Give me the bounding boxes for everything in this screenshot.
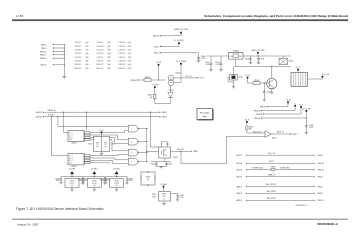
svg-text:R8541: R8541 bbox=[74, 64, 81, 66]
svg-text:10UF: 10UF bbox=[56, 180, 60, 182]
svg-text:C8528: C8528 bbox=[129, 178, 134, 180]
svg-text:PB8-6: PB8-6 bbox=[318, 155, 323, 157]
svg-text:C8544: C8544 bbox=[74, 53, 81, 55]
svg-text:U8515: U8515 bbox=[239, 76, 244, 78]
capacitor C8526 bbox=[104, 177, 111, 183]
svg-text:47K: 47K bbox=[249, 128, 252, 130]
power 5V input regulator 2 bbox=[91, 168, 98, 176]
wire SW_B+ bbox=[36, 115, 167, 119]
ground C8530 bbox=[176, 199, 179, 201]
transistor Q8501 bbox=[159, 147, 179, 159]
svg-text:10UF: 10UF bbox=[101, 180, 105, 182]
svg-text:AN8-3: AN8-3 bbox=[237, 192, 242, 195]
svg-text:5V_A: 5V_A bbox=[286, 98, 291, 101]
wire FL8500 to rail B bbox=[235, 59, 236, 67]
svg-text:1-156: 1-156 bbox=[16, 14, 24, 18]
svg-text:10UF: 10UF bbox=[78, 180, 82, 182]
capacitor C8511 bbox=[257, 56, 264, 63]
svg-text:C8523: C8523 bbox=[55, 178, 60, 180]
spare parts row 3 bbox=[74, 49, 132, 52]
wire OUT_5V_UNSW bbox=[174, 76, 204, 80]
svg-text:5.0V: 5.0V bbox=[71, 185, 74, 187]
svg-text:SHIELD_IN_GND: SHIELD_IN_GND bbox=[251, 50, 265, 52]
ground C8509 bbox=[197, 60, 201, 62]
spare parts row 4 bbox=[74, 53, 132, 56]
svg-text:U8509: U8509 bbox=[72, 143, 77, 145]
resistor R8505 bbox=[253, 80, 260, 84]
svg-text:U8508: U8508 bbox=[162, 194, 167, 196]
svg-text:PB8-9: PB8-9 bbox=[131, 80, 136, 82]
ground C8510 bbox=[249, 63, 252, 65]
svg-text:0.1UF: 0.1UF bbox=[206, 64, 210, 66]
wire Q8500 collector bbox=[271, 66, 272, 79]
ground bus bbox=[62, 76, 66, 78]
svg-text:U8510: U8510 bbox=[72, 166, 77, 168]
capacitor C8528 bbox=[305, 124, 314, 132]
node 5V_A bbox=[286, 98, 291, 103]
svg-text:0.1UF: 0.1UF bbox=[216, 64, 220, 66]
node 5V_D crystal bbox=[99, 130, 104, 133]
svg-text:LP2951: LP2951 bbox=[92, 183, 97, 185]
ground output cap bbox=[103, 182, 106, 184]
svg-text:R8503: R8503 bbox=[145, 77, 150, 79]
capacitor C8530 bbox=[171, 193, 184, 199]
node 5V_A bbox=[156, 61, 161, 66]
wire 5V_D_SW vertical bbox=[306, 117, 307, 124]
svg-text:BOOT: BOOT bbox=[269, 161, 274, 163]
svg-text:C8552: C8552 bbox=[96, 61, 103, 63]
spare parts row 7 bbox=[74, 64, 132, 67]
svg-text:GATE_5V: GATE_5V bbox=[277, 130, 285, 133]
ground C8516 bbox=[209, 70, 212, 72]
regulator U8508 bbox=[152, 192, 171, 202]
filter FL8500 bbox=[229, 50, 244, 59]
svg-text:PB8-1: PB8-1 bbox=[193, 151, 198, 153]
ground C8520 bbox=[263, 99, 266, 101]
svg-text:PB8-11: PB8-11 bbox=[318, 200, 324, 202]
svg-text:R8504: R8504 bbox=[148, 95, 153, 97]
resistor R8504 bbox=[148, 88, 156, 104]
svg-text:UNSW_B+: UNSW_B+ bbox=[48, 110, 57, 112]
node SH_GND bbox=[233, 55, 242, 59]
page number bbox=[16, 14, 24, 18]
node 5V_D bbox=[299, 105, 304, 108]
svg-text:0.1UF: 0.1UF bbox=[309, 127, 313, 129]
svg-text:R8545: R8545 bbox=[96, 68, 103, 70]
svg-text:R8507: R8507 bbox=[249, 127, 254, 129]
svg-text:PB8-9: PB8-9 bbox=[318, 193, 323, 195]
node 5V_A_GND bbox=[174, 39, 184, 44]
svg-text:C8549: C8549 bbox=[96, 50, 103, 52]
ground output cap bbox=[81, 182, 84, 184]
ground Q8500 emitter bbox=[271, 89, 274, 95]
wire diode to U8504 bbox=[170, 86, 172, 93]
regulator U8506 bbox=[87, 179, 101, 188]
svg-text:LH8-13: LH8-13 bbox=[236, 163, 242, 165]
svg-text:C8541: C8541 bbox=[74, 42, 81, 44]
svg-text:D8500: D8500 bbox=[169, 90, 174, 92]
svg-text:0.1UF: 0.1UF bbox=[201, 58, 206, 60]
svg-text:0.1UF: 0.1UF bbox=[179, 197, 183, 199]
node SHIELD_IN_GND right bbox=[251, 50, 265, 56]
regulator U8505 bbox=[65, 179, 79, 188]
svg-text:SAL_SPKR-: SAL_SPKR- bbox=[267, 197, 277, 200]
wire PB8-20 bbox=[254, 112, 307, 120]
wire AN8-5 to PB8-11 bbox=[237, 197, 324, 202]
svg-text:GND: GND bbox=[69, 139, 72, 141]
spare parts row 6 bbox=[74, 60, 132, 63]
IC U8509 bbox=[68, 130, 90, 144]
svg-text:PB8-7: PB8-7 bbox=[318, 186, 323, 188]
svg-text:Q8501: Q8501 bbox=[173, 157, 178, 159]
wire 5V_D_UNSW drop bbox=[174, 65, 181, 83]
svg-text:SAL_DETECT: SAL_DETECT bbox=[266, 183, 277, 186]
svg-text:5V_A: 5V_A bbox=[156, 61, 161, 64]
svg-text:LH8-15: LH8-15 bbox=[236, 170, 242, 172]
svg-text:LP2951: LP2951 bbox=[114, 183, 119, 185]
capacitor C8509 bbox=[197, 56, 206, 60]
svg-text:C8528: C8528 bbox=[309, 125, 314, 127]
wire UNSW_B+ bbox=[36, 110, 167, 114]
capacitor C8518 crossed box bbox=[228, 66, 243, 86]
wire to gate1 input bbox=[121, 125, 128, 127]
ground regulator bbox=[93, 187, 96, 191]
header title bbox=[204, 14, 348, 18]
spare parts row 8 bbox=[74, 67, 132, 70]
node SHIELD_IN_GND bbox=[174, 29, 189, 33]
header rule bbox=[12, 19, 348, 21]
capacitor C8524 bbox=[81, 177, 88, 183]
ground output cap bbox=[126, 182, 129, 184]
node PB8-1 bbox=[41, 44, 65, 47]
svg-text:SAL_EN_5V: SAL_EN_5V bbox=[253, 130, 263, 133]
svg-text:C8554: C8554 bbox=[118, 46, 125, 48]
wire ground bus vertical bbox=[63, 45, 65, 77]
svg-text:PB8-3: PB8-3 bbox=[41, 48, 47, 50]
wire LH8-17 to PB8-8 bbox=[236, 174, 323, 178]
wire U8510 to gates bbox=[90, 154, 128, 163]
svg-text:PB8-10: PB8-10 bbox=[318, 163, 324, 165]
svg-text:AN8-5: AN8-5 bbox=[237, 199, 242, 202]
svg-text:PB8-19: PB8-19 bbox=[40, 58, 48, 60]
svg-text:Y8500: Y8500 bbox=[88, 143, 93, 145]
svg-text:R8543: R8543 bbox=[118, 64, 125, 66]
ground regulator bbox=[71, 187, 74, 191]
svg-text:C8546: C8546 bbox=[74, 61, 81, 63]
wire gate output bbox=[139, 141, 147, 142]
svg-text:5.0V: 5.0V bbox=[93, 185, 96, 187]
svg-text:PB8-16: PB8-16 bbox=[254, 111, 260, 113]
wire gate output PB8-5 bbox=[271, 130, 298, 136]
svg-text:C8550: C8550 bbox=[96, 53, 103, 55]
crystal Y8500 bbox=[88, 133, 116, 151]
capacitor C8516 bbox=[205, 56, 212, 70]
capacitor C8510 bbox=[245, 56, 252, 63]
capacitor C8520 base bypass bbox=[263, 82, 271, 99]
svg-text:LH8-25: LH8-25 bbox=[40, 65, 47, 67]
ground U8515 bbox=[232, 87, 235, 89]
svg-text:5.0V: 5.0V bbox=[115, 185, 118, 187]
diode D8500 bbox=[168, 90, 174, 97]
capacitor C8527 bbox=[100, 177, 107, 183]
node PB8-15 bbox=[40, 51, 65, 54]
node 5V_D connector bbox=[296, 67, 301, 73]
svg-text:C8521: C8521 bbox=[150, 164, 155, 166]
wire power drop to Q8501 bbox=[150, 112, 158, 147]
capacitor C8522 bbox=[165, 162, 172, 167]
transistor U8504 bbox=[168, 73, 181, 86]
svg-text:C8530: C8530 bbox=[179, 195, 184, 197]
svg-text:AN8-1: AN8-1 bbox=[237, 185, 242, 188]
wire 5V_SAL drop bbox=[163, 188, 165, 192]
svg-text:10K: 10K bbox=[150, 97, 154, 99]
ground regulator bbox=[115, 187, 118, 191]
svg-text:SENB_LE: SENB_LE bbox=[268, 174, 276, 176]
svg-text:PB8-5: PB8-5 bbox=[293, 134, 298, 136]
svg-text:U8507: U8507 bbox=[114, 180, 119, 182]
resistor R8506 row3 bbox=[252, 166, 290, 174]
wire LH8-15 to PB8-12 bbox=[236, 169, 324, 172]
spare parts row 2 bbox=[74, 45, 132, 48]
legend box Flat Cable Side bbox=[197, 109, 213, 120]
capacitor C8525 bbox=[77, 177, 84, 183]
node 5V_E bbox=[245, 119, 250, 122]
svg-text:5V_D: 5V_D bbox=[296, 67, 301, 69]
svg-text:5V: 5V bbox=[163, 199, 165, 201]
svg-text:C8548: C8548 bbox=[96, 46, 103, 48]
svg-text:8485366Z01-O: 8485366Z01-O bbox=[295, 205, 308, 207]
gate U8511A bbox=[128, 125, 139, 132]
node PB8-3 bbox=[41, 47, 65, 50]
svg-text:BR: BR bbox=[147, 179, 149, 181]
svg-text:LH8-17: LH8-17 bbox=[236, 177, 242, 179]
ground input cap bbox=[60, 182, 63, 184]
svg-text:C8511: C8511 bbox=[260, 58, 265, 60]
wire gate output bbox=[139, 161, 147, 162]
wire PB8-18 bbox=[256, 108, 301, 116]
wire gate input 1 bbox=[246, 123, 265, 134]
svg-text:LH8-11: LH8-11 bbox=[236, 155, 242, 157]
svg-text:C8545: C8545 bbox=[74, 57, 81, 59]
wire rail B bbox=[236, 65, 291, 67]
svg-text:5V_REG: 5V_REG bbox=[69, 168, 76, 170]
footer document number bbox=[318, 222, 339, 226]
node 5V_B left bbox=[152, 84, 160, 88]
svg-text:C8553: C8553 bbox=[118, 42, 125, 44]
svg-text:78L05: 78L05 bbox=[152, 194, 156, 196]
svg-text:C8525: C8525 bbox=[77, 178, 82, 180]
svg-text:PB8-4: PB8-4 bbox=[162, 112, 167, 114]
svg-text:C8527: C8527 bbox=[100, 178, 105, 180]
svg-text:R8505: R8505 bbox=[254, 80, 259, 82]
wire gate collect vertical bbox=[146, 129, 158, 162]
wire regulator rail bbox=[61, 176, 83, 177]
svg-text:5V_D_UNSW: 5V_D_UNSW bbox=[176, 61, 187, 63]
figure caption bbox=[16, 207, 104, 211]
node PB8-17 bbox=[40, 54, 65, 57]
svg-text:C8551: C8551 bbox=[96, 57, 103, 59]
svg-text:C8558: C8558 bbox=[118, 61, 125, 63]
footer rule bbox=[12, 219, 348, 220]
regulator U8507 bbox=[110, 179, 124, 188]
node PB8-19 bbox=[40, 57, 65, 60]
svg-text:PB8-8: PB8-8 bbox=[318, 177, 323, 179]
capacitor C8528 bbox=[126, 177, 133, 183]
ground C8511 bbox=[257, 63, 260, 65]
svg-text:C8514: C8514 bbox=[205, 62, 210, 64]
wire gate input 2 long path bbox=[181, 136, 265, 163]
wire vertical to U8509 bbox=[64, 112, 68, 132]
svg-text:SPI_CLK: SPI_CLK bbox=[268, 153, 276, 155]
svg-text:C8547: C8547 bbox=[96, 42, 103, 44]
node 5V_B right bbox=[245, 75, 250, 79]
svg-text:PB8-15: PB8-15 bbox=[40, 51, 48, 53]
svg-text:TP8-1: TP8-1 bbox=[199, 78, 203, 80]
svg-text:PB8-2: PB8-2 bbox=[162, 117, 167, 119]
wire PB8-9 input bbox=[131, 79, 166, 82]
spare parts row 5 bbox=[74, 56, 132, 59]
svg-text:R8546: R8546 bbox=[118, 68, 125, 70]
svg-text:SHIELD_IN_GND: SHIELD_IN_GND bbox=[174, 29, 189, 31]
svg-text:5V_KEY: 5V_KEY bbox=[152, 84, 160, 86]
svg-text:PB8-12: PB8-12 bbox=[318, 170, 324, 172]
wire PB8_24 bbox=[308, 74, 330, 79]
node 5V_SAL bbox=[160, 183, 166, 187]
gate U8511B bbox=[128, 138, 139, 145]
wire AN8-1 to PB8-7 bbox=[237, 183, 323, 188]
wire diode loop bbox=[155, 98, 171, 104]
capacitor C8512 crossed box bbox=[279, 56, 293, 65]
wire gate output bbox=[139, 152, 147, 153]
svg-text:5V_REG: 5V_REG bbox=[91, 168, 98, 170]
svg-text:R8506: R8506 bbox=[271, 166, 276, 168]
wire regulator rail bbox=[106, 176, 128, 177]
capacitor C8517 bbox=[215, 56, 222, 70]
svg-text:0.1UF: 0.1UF bbox=[129, 180, 133, 182]
svg-text:SAL_SW: SAL_SW bbox=[177, 148, 184, 151]
svg-text:LP2951: LP2951 bbox=[70, 183, 75, 185]
svg-text:PB8-26: PB8-26 bbox=[153, 36, 159, 38]
svg-text:PB8-18: PB8-18 bbox=[256, 114, 262, 116]
svg-text:5V_SAL: 5V_SAL bbox=[160, 183, 166, 186]
svg-text:PB8-20: PB8-20 bbox=[254, 118, 260, 120]
svg-text:August 24, 2007: August 24, 2007 bbox=[17, 222, 39, 226]
svg-text:5V_REG: 5V_REG bbox=[113, 168, 120, 170]
svg-text:REG: REG bbox=[153, 196, 157, 198]
svg-text:C8542: C8542 bbox=[74, 46, 81, 48]
svg-text:Flat Cable: Flat Cable bbox=[200, 111, 210, 114]
wire AN8-3 to PB8-9 bbox=[237, 190, 323, 195]
svg-text:R8542: R8542 bbox=[96, 64, 103, 66]
svg-text:5V_D: 5V_D bbox=[99, 130, 104, 132]
svg-text:C8513: C8513 bbox=[111, 143, 116, 145]
wire PB8-5 bbox=[154, 52, 199, 56]
svg-text:Schematics, Component Location: Schematics, Component Location Diagrams,… bbox=[204, 14, 348, 18]
spare parts row 1 bbox=[74, 42, 132, 45]
svg-text:U8501: U8501 bbox=[272, 138, 277, 140]
power 5V input regulator 3 bbox=[113, 168, 120, 176]
svg-text:PB8-1: PB8-1 bbox=[41, 44, 47, 46]
svg-text:5V_A_GND: 5V_A_GND bbox=[174, 39, 184, 42]
svg-text:5V_D_SW: 5V_D_SW bbox=[322, 74, 330, 76]
capacitor C8523 bbox=[55, 177, 62, 183]
wire rail A bbox=[207, 55, 291, 57]
svg-text:SW_B+: SW_B+ bbox=[48, 115, 54, 117]
svg-text:U8504: U8504 bbox=[176, 73, 181, 75]
svg-text:6816532H01-A: 6816532H01-A bbox=[318, 222, 339, 226]
diode bridge D8502 bbox=[140, 171, 155, 185]
svg-text:OUT_5V: OUT_5V bbox=[185, 76, 192, 78]
IC U8510 bbox=[68, 153, 90, 168]
svg-text:FLASH_GND: FLASH_GND bbox=[280, 166, 290, 169]
wire 5V_A drop bbox=[158, 66, 159, 81]
gate U8511C bbox=[128, 149, 139, 156]
svg-text:D8502: D8502 bbox=[146, 177, 151, 179]
ground input cap bbox=[82, 182, 85, 184]
wire SAL_SW output bbox=[171, 148, 199, 153]
svg-text:GND-A: GND-A bbox=[36, 116, 43, 119]
node 5V_D_UNSW bbox=[176, 61, 187, 65]
wire LH8-11 to PB8-6 bbox=[236, 153, 323, 157]
gate U8501 bbox=[265, 131, 277, 140]
ground C8528 bbox=[305, 133, 308, 135]
svg-text:R8544: R8544 bbox=[74, 68, 81, 70]
ground RC bbox=[156, 167, 166, 169]
node LH8-25 bbox=[40, 64, 65, 67]
capacitor C8521 bbox=[150, 162, 157, 167]
wire drop x86 bbox=[85, 112, 87, 130]
wire regulator rail bbox=[83, 176, 105, 177]
svg-text:PB8-14: PB8-14 bbox=[260, 107, 266, 109]
wire PB8-16 bbox=[254, 107, 295, 113]
wire vertical to U8510 bbox=[51, 117, 68, 156]
node 5V_C bbox=[294, 103, 296, 106]
svg-text:U8506: U8506 bbox=[92, 180, 97, 182]
svg-text:5V_B: 5V_B bbox=[245, 75, 250, 77]
svg-text:Figure 7-110. HUE4040A Secure: Figure 7-110. HUE4040A Secure Interface … bbox=[16, 207, 104, 211]
wire Q8501 gate staple bbox=[162, 142, 169, 147]
ground Y8500 bbox=[100, 152, 103, 156]
wire LH8-13 to PB8-10 bbox=[236, 161, 324, 165]
wire U8509 to gates bbox=[90, 130, 128, 150]
svg-text:C8557: C8557 bbox=[118, 57, 125, 59]
svg-text:FL8500: FL8500 bbox=[233, 50, 239, 52]
wire gate output bbox=[139, 128, 147, 129]
wire Q8501 source RC bbox=[151, 159, 171, 162]
svg-text:POWER_GND: POWER_GND bbox=[252, 167, 263, 169]
node 5V_D_SW bbox=[302, 108, 310, 111]
svg-text:PB8-5: PB8-5 bbox=[154, 53, 159, 55]
ground U8508 bbox=[162, 201, 165, 206]
svg-text:C8516: C8516 bbox=[215, 62, 220, 64]
svg-text:C8510: C8510 bbox=[245, 58, 250, 60]
drawing number bbox=[295, 205, 308, 207]
footer date bbox=[17, 222, 39, 226]
wire LH8-7 bbox=[154, 44, 179, 48]
ground input cap bbox=[104, 182, 107, 184]
svg-text:GND: GND bbox=[69, 162, 72, 164]
ground C8517 bbox=[219, 70, 222, 72]
power 5V input regulator 1 bbox=[69, 168, 76, 176]
svg-text:C8555: C8555 bbox=[118, 50, 125, 52]
svg-text:LH8-7: LH8-7 bbox=[154, 46, 159, 48]
resistor R8503 bbox=[144, 77, 151, 81]
wire base Q8500 bbox=[248, 79, 270, 84]
wire PB8-26 bbox=[153, 34, 181, 38]
svg-text:C8522: C8522 bbox=[168, 164, 173, 166]
connector J8500 bbox=[291, 73, 308, 87]
wire PB8-14 bbox=[260, 103, 288, 108]
